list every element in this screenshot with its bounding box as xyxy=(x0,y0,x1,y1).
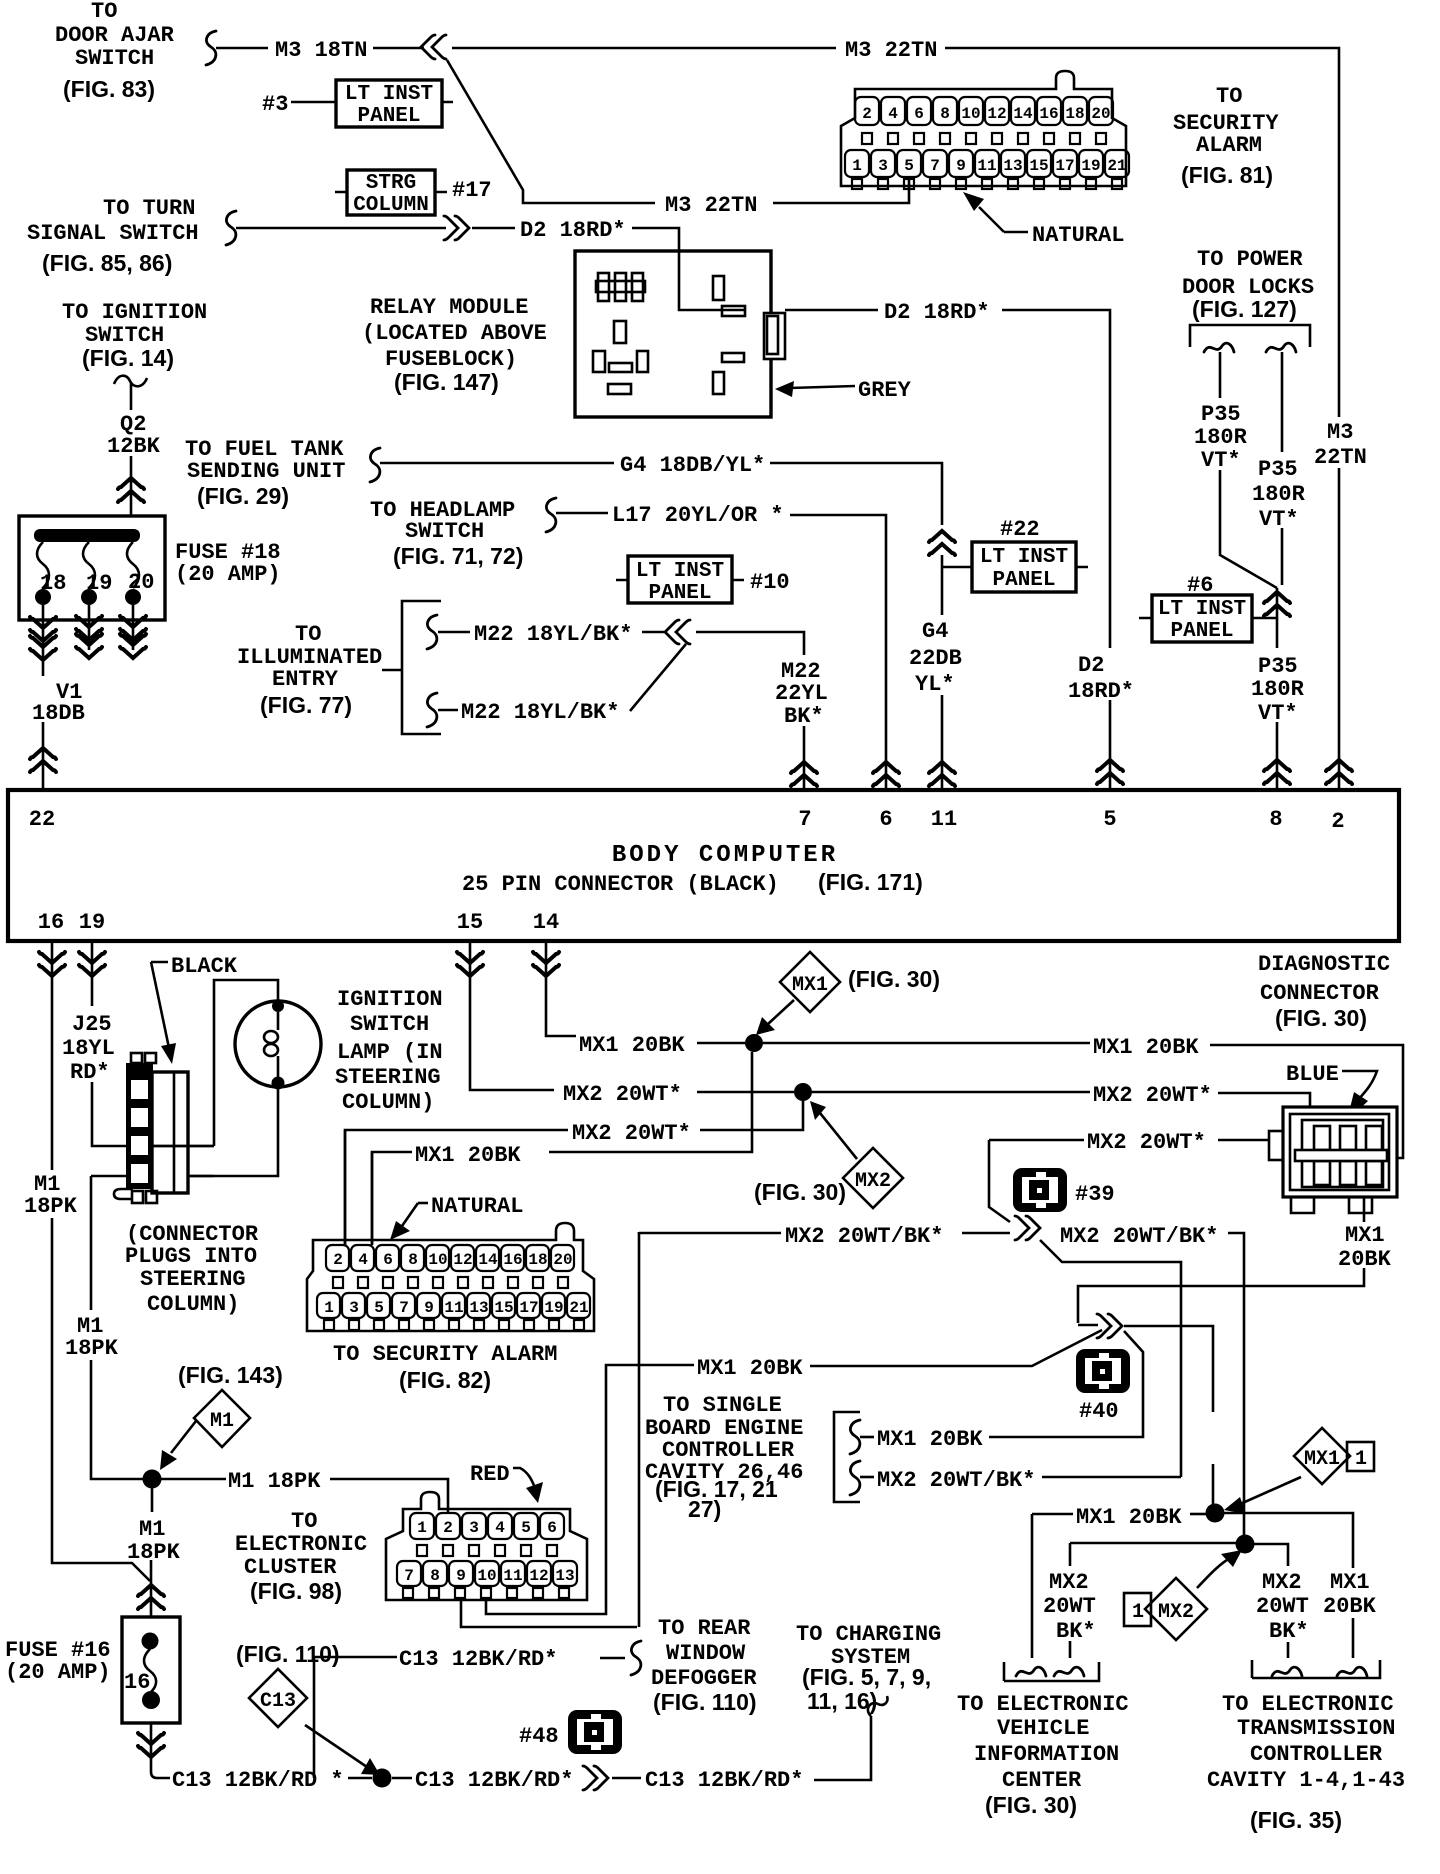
svg-text:GREY: GREY xyxy=(858,378,912,403)
svg-text:ELECTRONIC: ELECTRONIC xyxy=(235,1532,367,1557)
svg-text:17: 17 xyxy=(519,1299,538,1317)
svg-text:C13: C13 xyxy=(260,1690,296,1713)
svg-text:2: 2 xyxy=(1331,809,1344,834)
svg-text:25 PIN CONNECTOR (BLACK): 25 PIN CONNECTOR (BLACK) xyxy=(462,872,779,897)
svg-text:MX1: MX1 xyxy=(1330,1570,1370,1595)
svg-text:M3 18TN: M3 18TN xyxy=(275,38,367,63)
svg-text:P35: P35 xyxy=(1201,402,1241,427)
svg-text:MX2: MX2 xyxy=(1049,1570,1089,1595)
svg-text:MX2 20WT/BK*: MX2 20WT/BK* xyxy=(1060,1224,1218,1249)
svg-text:22TN: 22TN xyxy=(1314,445,1367,470)
svg-text:1: 1 xyxy=(417,1519,427,1537)
svg-text:MX1 20BK: MX1 20BK xyxy=(697,1356,803,1381)
svg-text:C13 12BK/RD*: C13 12BK/RD* xyxy=(399,1647,557,1672)
svg-text:BK*: BK* xyxy=(1269,1619,1309,1644)
svg-text:SWITCH: SWITCH xyxy=(350,1012,429,1037)
svg-text:#39: #39 xyxy=(1075,1182,1115,1207)
svg-text:G4 18DB/YL*: G4 18DB/YL* xyxy=(620,453,765,478)
svg-text:(FIG. 30): (FIG. 30) xyxy=(754,1179,846,1205)
svg-text:M22 18YL/BK*: M22 18YL/BK* xyxy=(474,622,632,647)
svg-text:16: 16 xyxy=(503,1251,522,1269)
svg-text:11: 11 xyxy=(503,1567,522,1585)
svg-text:COLUMN): COLUMN) xyxy=(342,1090,434,1115)
svg-text:1: 1 xyxy=(324,1299,334,1317)
svg-text:NATURAL: NATURAL xyxy=(1032,223,1124,248)
svg-text:DIAGNOSTIC: DIAGNOSTIC xyxy=(1258,952,1390,977)
svg-text:MX2 20WT*: MX2 20WT* xyxy=(1093,1083,1212,1108)
svg-text:(FIG. 147): (FIG. 147) xyxy=(394,369,499,395)
svg-text:19: 19 xyxy=(79,910,105,935)
svg-text:10: 10 xyxy=(961,105,980,123)
svg-text:12: 12 xyxy=(453,1251,472,1269)
svg-text:(FIG. 127): (FIG. 127) xyxy=(1192,296,1297,322)
svg-text:C13 12BK/RD*: C13 12BK/RD* xyxy=(645,1768,803,1793)
svg-text:2: 2 xyxy=(862,105,872,123)
svg-text:COLUMN: COLUMN xyxy=(353,194,429,217)
svg-text:RD*: RD* xyxy=(70,1060,110,1085)
svg-text:22YL: 22YL xyxy=(775,681,828,706)
svg-text:12: 12 xyxy=(987,105,1006,123)
svg-text:6: 6 xyxy=(547,1519,557,1537)
svg-text:(FIG. 30): (FIG. 30) xyxy=(1275,1005,1367,1031)
svg-text:TO ELECTRONIC: TO ELECTRONIC xyxy=(957,1692,1129,1717)
svg-text:3: 3 xyxy=(349,1299,359,1317)
svg-text:(FIG. 110): (FIG. 110) xyxy=(236,1641,340,1667)
svg-text:11: 11 xyxy=(931,807,957,832)
svg-text:TO POWER: TO POWER xyxy=(1197,247,1303,272)
svg-text:18DB: 18DB xyxy=(32,701,85,726)
svg-text:DEFOGGER: DEFOGGER xyxy=(651,1666,757,1691)
svg-text:7: 7 xyxy=(930,157,940,175)
svg-text:3: 3 xyxy=(469,1519,479,1537)
svg-text:#48: #48 xyxy=(519,1724,559,1749)
svg-text:6: 6 xyxy=(914,105,924,123)
svg-text:P35: P35 xyxy=(1258,457,1298,482)
svg-text:CLUSTER: CLUSTER xyxy=(244,1555,337,1580)
svg-text:YL*: YL* xyxy=(915,672,955,697)
svg-text:(FIG. 30): (FIG. 30) xyxy=(848,966,940,992)
svg-text:11: 11 xyxy=(977,157,996,175)
svg-text:C13 12BK/RD*: C13 12BK/RD* xyxy=(415,1768,573,1793)
svg-text:RED: RED xyxy=(470,1462,510,1487)
svg-text:18RD*: 18RD* xyxy=(1068,679,1134,704)
svg-text:8: 8 xyxy=(1269,807,1282,832)
svg-text:13: 13 xyxy=(555,1567,574,1585)
svg-text:LT INST: LT INST xyxy=(345,83,433,106)
svg-text:9: 9 xyxy=(424,1299,434,1317)
svg-text:MX1 20BK: MX1 20BK xyxy=(415,1143,521,1168)
svg-text:7: 7 xyxy=(399,1299,409,1317)
svg-text:BK*: BK* xyxy=(1056,1619,1096,1644)
svg-text:180R: 180R xyxy=(1194,425,1248,450)
svg-text:19: 19 xyxy=(544,1299,563,1317)
svg-text:ALARM: ALARM xyxy=(1196,133,1262,158)
svg-text:18PK: 18PK xyxy=(65,1336,119,1361)
svg-text:TO: TO xyxy=(91,0,117,24)
svg-text:16: 16 xyxy=(1039,105,1058,123)
svg-text:D2 18RD*: D2 18RD* xyxy=(520,218,626,243)
svg-text:PANEL: PANEL xyxy=(992,569,1055,592)
svg-text:D2 18RD*: D2 18RD* xyxy=(884,300,990,325)
svg-text:TO: TO xyxy=(291,1509,317,1534)
svg-text:TO IGNITION: TO IGNITION xyxy=(62,300,207,325)
svg-text:(FIG. 14): (FIG. 14) xyxy=(82,345,174,371)
svg-text:9: 9 xyxy=(956,157,966,175)
svg-text:(FIG. 82): (FIG. 82) xyxy=(399,1367,491,1393)
svg-text:15: 15 xyxy=(494,1299,513,1317)
svg-text:20WT: 20WT xyxy=(1043,1594,1096,1619)
svg-text:TO ELECTRONIC: TO ELECTRONIC xyxy=(1222,1692,1394,1717)
svg-text:6: 6 xyxy=(879,807,892,832)
svg-text:CAVITY 1-4,1-43: CAVITY 1-4,1-43 xyxy=(1207,1768,1405,1793)
svg-text:5: 5 xyxy=(1103,807,1116,832)
svg-text:D2: D2 xyxy=(1078,653,1104,678)
svg-text:CONTROLLER: CONTROLLER xyxy=(1250,1742,1383,1767)
svg-text:TO: TO xyxy=(295,622,321,647)
svg-text:BK*: BK* xyxy=(784,704,824,729)
svg-text:7: 7 xyxy=(798,807,811,832)
svg-text:LAMP (IN: LAMP (IN xyxy=(337,1040,443,1065)
svg-text:M1: M1 xyxy=(139,1517,165,1542)
svg-text:(FIG. 5, 7, 9,: (FIG. 5, 7, 9, xyxy=(802,1664,931,1690)
svg-text:STEERING: STEERING xyxy=(335,1065,441,1090)
svg-text:MX2 20WT*: MX2 20WT* xyxy=(563,1082,682,1107)
svg-text:TO CHARGING: TO CHARGING xyxy=(796,1622,941,1647)
svg-text:18PK: 18PK xyxy=(24,1194,78,1219)
svg-text:9: 9 xyxy=(456,1567,466,1585)
svg-text:22DB: 22DB xyxy=(909,646,962,671)
svg-text:(FIG. 77): (FIG. 77) xyxy=(260,692,352,718)
svg-text:(20 AMP): (20 AMP) xyxy=(5,1660,111,1685)
svg-text:18: 18 xyxy=(1065,105,1084,123)
svg-text:14: 14 xyxy=(478,1251,498,1269)
svg-text:17: 17 xyxy=(1055,157,1074,175)
svg-text:11: 11 xyxy=(444,1299,463,1317)
svg-text:19: 19 xyxy=(1081,157,1100,175)
svg-text:10: 10 xyxy=(477,1567,496,1585)
svg-text:STRG: STRG xyxy=(366,172,416,195)
svg-text:13: 13 xyxy=(469,1299,488,1317)
svg-text:M22 18YL/BK*: M22 18YL/BK* xyxy=(461,700,619,725)
svg-text:12: 12 xyxy=(529,1567,548,1585)
svg-text:(FIG. 143): (FIG. 143) xyxy=(178,1362,283,1388)
svg-text:NATURAL: NATURAL xyxy=(431,1194,523,1219)
svg-text:LT INST: LT INST xyxy=(980,546,1068,569)
svg-text:MX1 20BK: MX1 20BK xyxy=(579,1033,685,1058)
svg-text:4: 4 xyxy=(358,1251,368,1269)
svg-text:CENTER: CENTER xyxy=(1002,1768,1082,1793)
svg-text:5: 5 xyxy=(904,157,914,175)
svg-text:10: 10 xyxy=(428,1251,447,1269)
svg-text:LT INST: LT INST xyxy=(636,560,724,583)
svg-text:M3: M3 xyxy=(1327,420,1353,445)
svg-text:RELAY MODULE: RELAY MODULE xyxy=(370,295,528,320)
svg-text:14: 14 xyxy=(1013,105,1033,123)
svg-text:WINDOW: WINDOW xyxy=(666,1641,746,1666)
svg-text:ENTRY: ENTRY xyxy=(272,667,339,692)
svg-text:14: 14 xyxy=(533,910,559,935)
svg-text:(FIG. 110): (FIG. 110) xyxy=(653,1689,757,1715)
svg-text:(FIG. 171): (FIG. 171) xyxy=(818,869,923,895)
svg-text:TO REAR: TO REAR xyxy=(658,1616,751,1641)
svg-text:BLUE: BLUE xyxy=(1286,1062,1339,1087)
svg-text:PANEL: PANEL xyxy=(648,582,711,605)
svg-text:2: 2 xyxy=(333,1251,343,1269)
svg-text:M1: M1 xyxy=(210,1410,234,1433)
svg-text:P35: P35 xyxy=(1258,654,1298,679)
svg-text:J25: J25 xyxy=(72,1012,112,1037)
svg-text:TO TURN: TO TURN xyxy=(103,196,195,221)
svg-text:MX2 20WT/BK*: MX2 20WT/BK* xyxy=(877,1468,1035,1493)
svg-text:#40: #40 xyxy=(1079,1399,1119,1424)
svg-text:15: 15 xyxy=(457,910,483,935)
svg-text:#10: #10 xyxy=(750,570,790,595)
svg-text:BLACK: BLACK xyxy=(171,954,238,979)
svg-text:MX2: MX2 xyxy=(855,1170,891,1193)
svg-text:20BK: 20BK xyxy=(1323,1594,1377,1619)
svg-text:G4: G4 xyxy=(922,619,948,644)
svg-text:12BK: 12BK xyxy=(107,434,161,459)
svg-text:STEERING: STEERING xyxy=(140,1267,246,1292)
svg-text:#17: #17 xyxy=(452,178,492,203)
svg-text:6: 6 xyxy=(383,1251,393,1269)
svg-text:MX2 20WT/BK*: MX2 20WT/BK* xyxy=(785,1224,943,1249)
svg-text:TRANSMISSION: TRANSMISSION xyxy=(1237,1716,1395,1741)
svg-text:2: 2 xyxy=(443,1519,453,1537)
svg-text:VT*: VT* xyxy=(1201,448,1241,473)
svg-text:VT*: VT* xyxy=(1259,507,1299,532)
svg-text:20: 20 xyxy=(1091,105,1110,123)
svg-text:(FIG. 29): (FIG. 29) xyxy=(197,483,289,509)
svg-text:IGNITION: IGNITION xyxy=(337,987,443,1012)
svg-text:(FIG. 81): (FIG. 81) xyxy=(1181,162,1273,188)
svg-text:(FIG. 35): (FIG. 35) xyxy=(1250,1807,1342,1833)
svg-text:18YL: 18YL xyxy=(62,1036,115,1061)
svg-text:(FIG. 85, 86): (FIG. 85, 86) xyxy=(42,250,172,276)
svg-text:16: 16 xyxy=(124,1670,150,1695)
svg-text:(20 AMP): (20 AMP) xyxy=(175,562,281,587)
svg-text:MX2 20WT*: MX2 20WT* xyxy=(1087,1130,1206,1155)
svg-text:8: 8 xyxy=(408,1251,418,1269)
svg-text:SWITCH: SWITCH xyxy=(405,519,484,544)
svg-text:1: 1 xyxy=(1132,1601,1144,1624)
svg-text:MX2: MX2 xyxy=(1262,1570,1302,1595)
svg-text:7: 7 xyxy=(404,1567,414,1585)
svg-text:(LOCATED ABOVE: (LOCATED ABOVE xyxy=(362,321,547,346)
svg-text:MX1 20BK: MX1 20BK xyxy=(1076,1505,1182,1530)
svg-text:PANEL: PANEL xyxy=(1170,620,1233,643)
svg-text:1: 1 xyxy=(852,157,862,175)
svg-text:21: 21 xyxy=(1107,157,1126,175)
svg-text:DOOR AJAR: DOOR AJAR xyxy=(55,23,175,48)
svg-text:BODY COMPUTER: BODY COMPUTER xyxy=(612,842,838,869)
svg-text:TO: TO xyxy=(1216,84,1242,109)
svg-text:SENDING UNIT: SENDING UNIT xyxy=(187,459,345,484)
svg-text:M3 22TN: M3 22TN xyxy=(845,38,937,63)
svg-text:4: 4 xyxy=(888,105,898,123)
svg-text:21: 21 xyxy=(569,1299,588,1317)
svg-text:8: 8 xyxy=(940,105,950,123)
svg-text:180R: 180R xyxy=(1251,677,1305,702)
svg-text:C13 12BK/RD *: C13 12BK/RD * xyxy=(172,1768,344,1793)
svg-text:11, 16): 11, 16) xyxy=(807,1688,877,1714)
svg-text:22: 22 xyxy=(29,807,55,832)
svg-text:TO SECURITY ALARM: TO SECURITY ALARM xyxy=(333,1342,557,1367)
svg-text:(FIG. 30): (FIG. 30) xyxy=(985,1792,1077,1818)
svg-text:18PK: 18PK xyxy=(127,1540,181,1565)
svg-text:20WT: 20WT xyxy=(1256,1594,1309,1619)
svg-text:SIGNAL SWITCH: SIGNAL SWITCH xyxy=(27,221,199,246)
svg-text:MX1: MX1 xyxy=(1304,1448,1340,1471)
svg-text:MX2: MX2 xyxy=(1158,1601,1194,1624)
svg-text:MX1: MX1 xyxy=(1345,1223,1385,1248)
svg-text:SWITCH: SWITCH xyxy=(75,46,154,71)
svg-text:5: 5 xyxy=(374,1299,384,1317)
svg-text:MX2 20WT*: MX2 20WT* xyxy=(572,1121,691,1146)
svg-text:L17 20YL/OR *: L17 20YL/OR * xyxy=(612,503,784,528)
svg-text:#22: #22 xyxy=(1000,517,1040,542)
svg-text:PANEL: PANEL xyxy=(357,105,420,128)
svg-text:(FIG. 98): (FIG. 98) xyxy=(250,1578,342,1604)
svg-text:5: 5 xyxy=(521,1519,531,1537)
svg-text:1: 1 xyxy=(1355,1448,1367,1471)
svg-text:COLUMN): COLUMN) xyxy=(147,1292,239,1317)
svg-text:4: 4 xyxy=(495,1519,505,1537)
svg-text:#3: #3 xyxy=(262,92,288,117)
svg-text:MX1 20BK: MX1 20BK xyxy=(1093,1035,1199,1060)
svg-text:180R: 180R xyxy=(1252,482,1306,507)
svg-text:20: 20 xyxy=(553,1251,572,1269)
svg-text:PLUGS INTO: PLUGS INTO xyxy=(125,1244,257,1269)
svg-text:VEHICLE: VEHICLE xyxy=(997,1716,1089,1741)
svg-text:8: 8 xyxy=(430,1567,440,1585)
svg-text:M1 18PK: M1 18PK xyxy=(228,1469,321,1494)
svg-text:CONNECTOR: CONNECTOR xyxy=(1260,981,1380,1006)
svg-text:18: 18 xyxy=(528,1251,547,1269)
svg-text:LT INST: LT INST xyxy=(1158,598,1246,621)
svg-text:MX1 20BK: MX1 20BK xyxy=(877,1427,983,1452)
svg-text:M3 22TN: M3 22TN xyxy=(665,193,757,218)
svg-text:3: 3 xyxy=(878,157,888,175)
svg-text:16: 16 xyxy=(38,910,64,935)
svg-text:(FIG. 83): (FIG. 83) xyxy=(63,76,155,102)
svg-text:TO SINGLE: TO SINGLE xyxy=(663,1393,782,1418)
svg-text:MX1: MX1 xyxy=(792,974,828,997)
svg-text:15: 15 xyxy=(1029,157,1048,175)
svg-text:INFORMATION: INFORMATION xyxy=(974,1742,1119,1767)
svg-text:13: 13 xyxy=(1003,157,1022,175)
svg-text:27): 27) xyxy=(688,1496,721,1522)
svg-text:(FIG. 71, 72): (FIG. 71, 72) xyxy=(393,543,523,569)
